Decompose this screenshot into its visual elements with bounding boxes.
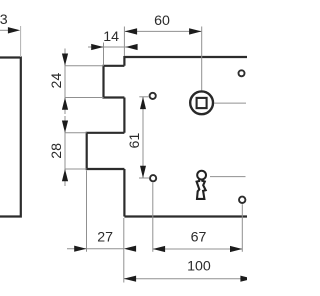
dimension 60 left arrow bbox=[125, 28, 138, 34]
dimension 67 right extension line bbox=[241, 204, 243, 252]
dimension 27 right arrow bbox=[124, 246, 136, 252]
dimension 28 top arrow bbox=[64, 116, 66, 186]
dimension 67 left extension line bbox=[152, 183, 154, 252]
lock case bottom edge bbox=[124, 215, 248, 217]
dimension 67 line bbox=[153, 248, 243, 250]
dimension 23 arrow bbox=[8, 27, 20, 33]
dimension 60 line bbox=[125, 30, 202, 32]
keyhole leader line bbox=[210, 176, 246, 178]
dimension 28 bottom extension line bbox=[65, 168, 87, 170]
dimension 14 extension line bbox=[103, 43, 105, 66]
dimension 61 line bbox=[142, 97, 144, 178]
dimension 61 top tick bbox=[139, 96, 148, 98]
dimension 60 left extension line bbox=[123, 27, 125, 57]
screw hole top right bbox=[239, 70, 245, 76]
latch bolt bbox=[104, 66, 125, 98]
svg-text:60: 60 bbox=[154, 13, 170, 29]
dimension 27 left extension line bbox=[86, 171, 88, 252]
dimension 23 line bbox=[0, 29, 8, 31]
dimension 28 top extension line bbox=[65, 132, 87, 134]
dimension 61 top arrow bbox=[140, 97, 146, 109]
faceplate side view outline bbox=[0, 58, 21, 217]
svg-text:14: 14 bbox=[103, 29, 119, 45]
dimension 14 left arrow bbox=[91, 44, 103, 50]
svg-text:61: 61 bbox=[127, 133, 143, 149]
screw hole bottom left bbox=[150, 175, 156, 181]
dimension 67 right arrow bbox=[230, 246, 242, 252]
keyhole slot bbox=[197, 179, 206, 199]
dimension 100 left arrow bbox=[124, 276, 136, 282]
screw hole bottom right bbox=[239, 197, 245, 203]
dimension 24 bottom extension line bbox=[65, 97, 104, 99]
lock case top edge bbox=[124, 56, 248, 58]
dimension 23 extension line bbox=[20, 26, 22, 57]
dimension 24 bottom arrow bbox=[62, 98, 68, 110]
dimension 27 left arrow bbox=[74, 246, 86, 252]
svg-text:27: 27 bbox=[97, 229, 113, 245]
spindle leader line bbox=[214, 102, 246, 104]
screw hole top left bbox=[150, 93, 156, 99]
keyhole circle bbox=[197, 171, 206, 180]
dimension 100 line bbox=[124, 278, 248, 280]
dimension 14 right arrow bbox=[125, 44, 137, 50]
dimension 61 bottom tick bbox=[139, 177, 149, 179]
spindle centerline extension bbox=[201, 27, 203, 91]
svg-text:23: 23 bbox=[0, 12, 8, 28]
svg-text:24: 24 bbox=[49, 73, 65, 89]
lock case left edge segments bbox=[123, 56, 125, 217]
svg-text:28: 28 bbox=[49, 143, 65, 159]
case left edge extension to bottom bbox=[123, 218, 125, 283]
spindle hole circle bbox=[190, 91, 213, 114]
dimension 27 line bbox=[67, 248, 124, 250]
svg-text:67: 67 bbox=[191, 230, 207, 246]
dimension 60 right arrow bbox=[189, 28, 202, 34]
svg-text:100: 100 bbox=[187, 259, 211, 275]
dimension 24 top extension line bbox=[65, 65, 104, 67]
dimension 61 bottom arrow bbox=[140, 166, 146, 178]
dimension 28 bottom arrow bbox=[62, 169, 68, 181]
dimension 24 top arrow bbox=[64, 49, 66, 115]
dimension 14 line bbox=[88, 46, 138, 48]
spindle square bbox=[197, 98, 207, 108]
dimension 67 left arrow bbox=[153, 246, 165, 252]
deadbolt bbox=[87, 133, 125, 169]
dimension 100 right arrow (clipped) bbox=[240, 276, 252, 282]
